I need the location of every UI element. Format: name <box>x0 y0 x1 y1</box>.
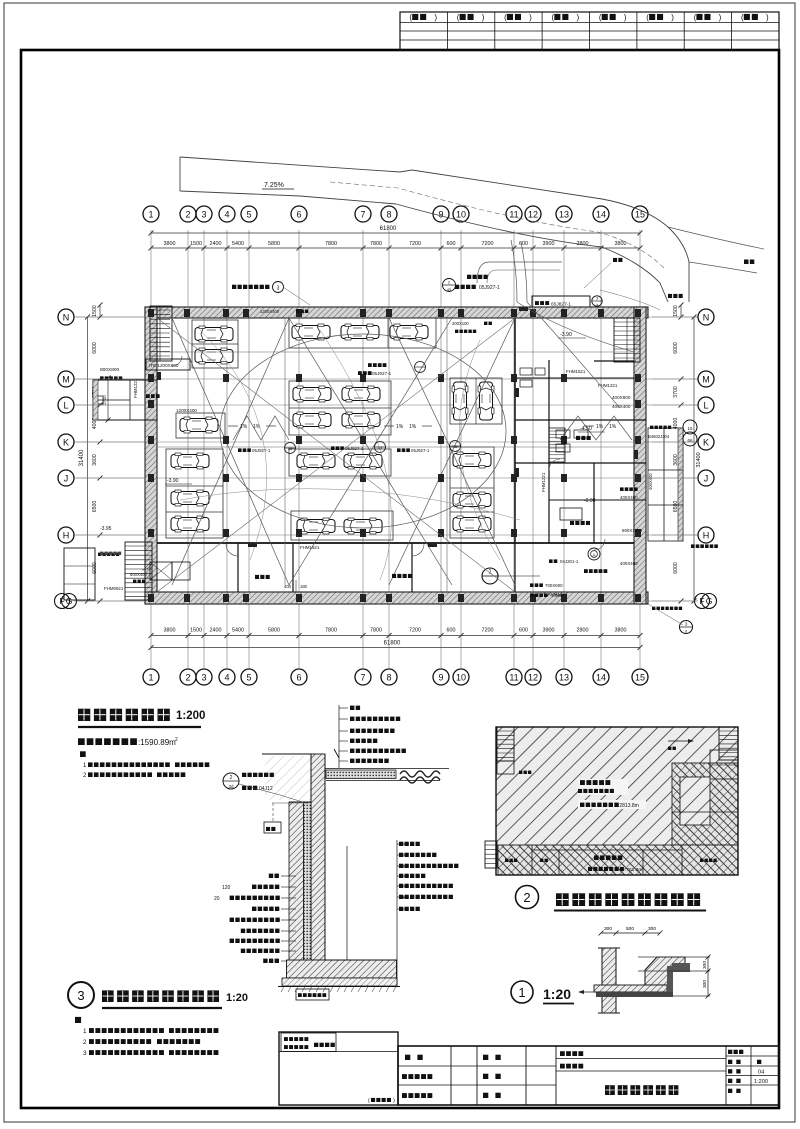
svg-text:6: 6 <box>296 210 301 220</box>
svg-text:2400: 2400 <box>210 628 222 634</box>
svg-text:6500: 6500 <box>92 501 98 513</box>
fire diagram right zone divider <box>672 811 738 813</box>
svg-text:7200: 7200 <box>482 241 494 247</box>
bottom band divider 1 <box>237 543 239 592</box>
svg-text:12: 12 <box>528 673 538 683</box>
svg-text:600: 600 <box>447 628 456 634</box>
svg-text:7: 7 <box>360 210 365 220</box>
detail roof squiggle <box>400 771 440 783</box>
svg-text:7800: 7800 <box>370 628 382 634</box>
mini date <box>728 1089 741 1093</box>
svg-text:31400: 31400 <box>79 449 85 466</box>
svg-text:1: 1 <box>148 210 153 220</box>
svg-text:-3.90: -3.90 <box>584 498 596 504</box>
svg-text:3: 3 <box>201 210 206 220</box>
room label fire water tank <box>392 574 412 578</box>
svg-text:3600: 3600 <box>92 454 98 466</box>
svg-text:05J927-1: 05J927-1 <box>411 448 430 453</box>
label duty room <box>146 394 160 398</box>
label right of wing a <box>650 426 671 429</box>
svg-text:400X400: 400X400 <box>620 495 638 500</box>
detail ground ledge line <box>262 753 313 755</box>
svg-text:2400: 2400 <box>210 241 222 247</box>
hydrant label 1 <box>238 443 296 454</box>
svg-text:H: H <box>703 531 710 541</box>
fire diagram outer rect <box>496 727 738 875</box>
door arc right room 1 <box>549 459 560 470</box>
svg-text::2813.8m: :2813.8m <box>618 803 639 809</box>
svg-text:L: L <box>63 401 68 411</box>
svg-text:14: 14 <box>596 210 606 220</box>
svg-text:FHM1221: FHM1221 <box>598 383 618 388</box>
cell project lead <box>402 1093 432 1098</box>
mini scale <box>728 1079 768 1085</box>
grid bubbles top (1-15) <box>143 206 648 222</box>
svg-text:10: 10 <box>456 673 466 683</box>
svg-text:3: 3 <box>277 286 280 292</box>
svg-text:7200: 7200 <box>409 628 421 634</box>
svg-text:400X400: 400X400 <box>648 473 653 490</box>
fire cell label a <box>505 859 517 862</box>
svg-text:3: 3 <box>201 673 206 683</box>
lane line vertical 2 <box>446 318 448 592</box>
equipment rect generator <box>560 508 582 520</box>
svg-text::1590.89m: :1590.89m <box>138 738 176 747</box>
fire diagram bottom strip crosshatch <box>498 845 738 875</box>
detail floor layer notes right <box>347 840 458 985</box>
svg-text:(: ( <box>368 1098 370 1104</box>
svg-text:1200X400: 1200X400 <box>176 408 197 413</box>
svg-text:): ) <box>671 13 674 22</box>
svg-text:14: 14 <box>596 673 606 683</box>
svg-text:2700: 2700 <box>102 395 107 405</box>
svg-text:1:200: 1:200 <box>176 710 205 722</box>
svg-text:-3.95: -3.95 <box>100 526 112 532</box>
svg-text:700X600: 700X600 <box>545 583 563 588</box>
bottom equipment band wall <box>157 542 634 544</box>
bottom band divider 3 <box>411 543 413 592</box>
leader bottom right <box>648 604 683 625</box>
registration text 2 <box>284 1043 335 1049</box>
detail ref circle A <box>588 548 600 560</box>
label basement drain right <box>691 544 718 548</box>
svg-text:9: 9 <box>438 210 443 220</box>
cell review <box>483 1074 501 1079</box>
svg-text:): ) <box>576 13 579 22</box>
svg-text:6000: 6000 <box>673 342 679 354</box>
svg-text:6000: 6000 <box>673 562 679 574</box>
svg-text:05J927-1: 05J927-1 <box>345 446 364 451</box>
ramp slope label 7.25% <box>262 182 294 189</box>
svg-text:500: 500 <box>626 926 634 932</box>
right rooms wall vertical x594 <box>593 463 595 543</box>
svg-text:5800: 5800 <box>268 628 280 634</box>
elev -4.50 <box>578 426 605 432</box>
label access hatch <box>530 583 563 588</box>
svg-text:FHM0921: FHM0921 <box>104 586 124 591</box>
long diagonal cross A <box>157 318 515 592</box>
svg-text:1:200: 1:200 <box>754 1079 768 1085</box>
title block grid <box>398 1046 726 1105</box>
svg-text:7200: 7200 <box>482 628 494 634</box>
svg-text:800X1500: 800X1500 <box>622 528 643 533</box>
label: garage roof drain (top-left) <box>232 282 310 306</box>
d1 wall cap lines <box>598 948 620 1013</box>
ramp lane rounded corner <box>477 262 562 283</box>
detail soil hatch above ledge <box>265 756 311 800</box>
entry arc right 1 <box>517 302 634 352</box>
subtitle: floor area <box>78 737 178 747</box>
label: tech mezzanine <box>443 275 501 292</box>
fire diagram cells below right stair <box>710 750 738 779</box>
label: stair hall <box>668 294 683 298</box>
svg-text:1%: 1% <box>409 424 417 430</box>
fire label small left <box>519 771 531 774</box>
cell discipline lead <box>402 1074 432 1079</box>
svg-text:05J927-1: 05J927-1 <box>372 371 392 376</box>
svg-text:6000: 6000 <box>92 342 98 354</box>
door arc right room 2 <box>594 539 605 550</box>
svg-text:120: 120 <box>222 885 231 891</box>
svg-text:d: d <box>685 629 687 634</box>
mini design no <box>728 1050 743 1054</box>
title: fire compartment diagram <box>516 886 707 911</box>
fire diagram stair block top-right <box>719 727 738 760</box>
svg-text:): ) <box>719 13 722 22</box>
detail soil ticks <box>281 987 396 993</box>
room label transformer <box>576 436 591 440</box>
svg-text:-3.90: -3.90 <box>167 478 179 484</box>
svg-text:2: 2 <box>523 890 530 905</box>
row bubbles right (N-G) <box>695 309 717 609</box>
sheet note 1 <box>83 1028 218 1035</box>
svg-text:5400: 5400 <box>232 628 244 634</box>
detail bedding bottom line <box>278 986 400 988</box>
svg-text:05J927-1: 05J927-1 <box>479 285 500 291</box>
overall dimension line bottom <box>149 641 643 651</box>
project section lines <box>556 1059 726 1072</box>
label right of wing b <box>648 434 670 439</box>
svg-text:2: 2 <box>230 775 233 781</box>
slope label 1% mid <box>384 424 432 430</box>
d1 wall hatch <box>602 948 616 1013</box>
svg-text:300: 300 <box>702 980 708 988</box>
svg-text:7: 7 <box>360 673 365 683</box>
svg-text:45: 45 <box>447 287 452 292</box>
svg-text:2: 2 <box>175 737 178 743</box>
lane diagonal X left <box>172 318 289 585</box>
parking bay outlines <box>166 318 502 540</box>
sheet note 3 <box>83 1050 218 1057</box>
lane line horizontal lower <box>157 446 634 448</box>
sheet note header <box>75 1017 81 1023</box>
stair top-right <box>614 318 640 362</box>
outer wall bottom band <box>145 592 648 604</box>
d1 left arrow <box>578 990 599 994</box>
d1 leader line top <box>638 956 710 958</box>
door leaf marks <box>157 307 638 547</box>
detail ref double circle right <box>683 420 697 446</box>
detail floor slab top line <box>325 959 397 961</box>
svg-text:4: 4 <box>224 673 229 683</box>
svg-text:(: ( <box>504 13 507 22</box>
svg-text:2: 2 <box>185 673 190 683</box>
ramp boundary upper line <box>180 157 689 302</box>
detail wall layer notes left <box>230 874 296 963</box>
structural grid horizontal lines <box>74 317 698 601</box>
svg-text:(: ( <box>741 13 744 22</box>
room label generator <box>570 521 590 525</box>
overall dimension line right <box>692 315 697 604</box>
svg-text:H: H <box>63 531 70 541</box>
svg-text:J: J <box>64 474 69 484</box>
door arc band 1 <box>226 544 238 556</box>
svg-text:400X400: 400X400 <box>612 404 631 409</box>
d1 membrane dark band <box>596 992 673 997</box>
top corridor label a <box>452 321 492 326</box>
lane diagonal X right <box>389 318 515 585</box>
right rooms wall vertical x549 <box>548 360 550 543</box>
right rooms wall horizontal y500 <box>549 499 646 501</box>
svg-text:31400: 31400 <box>696 452 702 467</box>
door arc band 2 <box>412 544 424 556</box>
ramp lane drop line 2 <box>521 242 527 302</box>
water intake well bottom-left <box>64 548 119 600</box>
svg-text:4000: 4000 <box>673 418 679 430</box>
segment dimension line right <box>673 303 684 604</box>
note header <box>80 751 86 757</box>
drain curve 2 <box>320 330 391 580</box>
small stair core mid-right <box>549 428 565 462</box>
svg-text:400: 400 <box>284 584 292 589</box>
slope label 1% right <box>584 424 617 430</box>
detail roof slab hatch band <box>326 770 396 779</box>
svg-text:8: 8 <box>386 673 391 683</box>
svg-text:A: A <box>592 553 595 558</box>
svg-text:300: 300 <box>648 926 656 932</box>
svg-text:3800: 3800 <box>615 241 627 247</box>
svg-text:): ) <box>434 13 437 22</box>
svg-text:-1.500: -1.500 <box>550 593 563 598</box>
svg-text:-3.90: -3.90 <box>560 332 572 338</box>
svg-text:1:20: 1:20 <box>543 986 571 1002</box>
d1 slab hatch <box>594 985 667 992</box>
svg-text:600: 600 <box>447 241 456 247</box>
cell check <box>483 1055 501 1060</box>
left protrusion rooms <box>93 380 157 420</box>
svg-text:FHM1221: FHM1221 <box>133 378 138 398</box>
svg-text:2: 2 <box>83 1039 87 1046</box>
title: basement waterproofing detail <box>68 982 248 1008</box>
fire zone 2 name <box>588 855 642 873</box>
label ITE box <box>146 359 190 370</box>
svg-text:(: ( <box>457 13 460 22</box>
door arc bottom-left <box>142 560 152 570</box>
segment dimension line left <box>92 303 103 604</box>
seal note <box>368 1098 395 1104</box>
membrane leader <box>239 784 306 803</box>
detail wall main hatch <box>311 754 325 960</box>
svg-text:4: 4 <box>224 210 229 220</box>
right rooms wall vertical x515 <box>514 318 516 543</box>
right rooms wall horizontal y463 <box>515 462 646 464</box>
felt layer label <box>296 989 329 1000</box>
svg-text:7.25%: 7.25% <box>264 182 284 189</box>
stair bottom-left outside <box>125 542 152 600</box>
label entry hall inner <box>584 258 622 288</box>
ramp boundary lower line <box>180 191 668 302</box>
svg-text:6: 6 <box>296 673 301 683</box>
top corridor label b <box>455 330 476 333</box>
top label 200000X400 <box>260 309 308 314</box>
svg-text:45: 45 <box>288 447 292 451</box>
label 800X400 duct <box>130 572 147 583</box>
membrane note text <box>242 773 274 792</box>
label: entry hall <box>744 260 754 265</box>
svg-text:M: M <box>702 375 710 385</box>
svg-text:(: ( <box>551 13 554 22</box>
dim 400 180 <box>284 580 308 592</box>
svg-text:2: 2 <box>185 210 190 220</box>
svg-text:K: K <box>703 438 709 448</box>
detail roof slab lines <box>321 769 449 781</box>
hydrant label 3 <box>397 441 461 454</box>
svg-text:1500: 1500 <box>190 241 202 247</box>
bottom band divider 4 <box>514 543 516 592</box>
room label pump house <box>255 575 270 579</box>
fire diagram right zone crosshatch <box>672 763 738 845</box>
fire diagram right zone inner room <box>680 777 710 825</box>
svg-text:N: N <box>63 313 70 323</box>
svg-text:3d: 3d <box>229 784 234 789</box>
svg-text:G: G <box>66 596 73 606</box>
turning circle ellipse <box>220 334 506 528</box>
slope zigzag right <box>560 416 632 440</box>
svg-text:FHM1521: FHM1521 <box>566 369 586 374</box>
right rooms wall horizontal y420 <box>515 419 646 421</box>
svg-text:1: 1 <box>518 985 525 1000</box>
structural grid vertical lines <box>151 230 640 668</box>
door arc top left room <box>172 356 182 366</box>
cell approve <box>483 1093 501 1098</box>
svg-text:800X400: 800X400 <box>130 572 147 577</box>
svg-text:3900: 3900 <box>543 628 555 634</box>
svg-text:3800: 3800 <box>164 241 176 247</box>
slope zigzag left <box>233 416 289 440</box>
svg-text:5400: 5400 <box>232 241 244 247</box>
svg-text:400X400: 400X400 <box>620 561 638 566</box>
svg-text:M: M <box>62 375 70 385</box>
svg-text:F: F <box>699 596 704 606</box>
d1 flange dark <box>672 963 690 972</box>
label box: reserved opening 65J827-1 <box>532 296 602 309</box>
svg-text:K: K <box>63 438 69 448</box>
label fan unit <box>150 562 190 580</box>
svg-text:200X100: 200X100 <box>452 321 469 326</box>
svg-text:40: 40 <box>399 864 405 869</box>
svg-text:800X800: 800X800 <box>100 367 120 373</box>
detail wall profile step <box>289 754 311 802</box>
cell design <box>405 1055 423 1060</box>
svg-text:7800: 7800 <box>325 241 337 247</box>
label cooling tower base <box>100 376 122 380</box>
outer wall left band <box>145 307 157 604</box>
d1 step right dark band <box>667 966 673 992</box>
label tank bottom elev <box>530 593 563 598</box>
elev -3.90 top-right <box>558 332 586 338</box>
svg-text:7800: 7800 <box>325 628 337 634</box>
fire cell label b <box>540 859 548 862</box>
svg-text:1: 1 <box>83 1028 87 1035</box>
svg-text:12: 12 <box>528 210 538 220</box>
fire diagram stair block left <box>485 841 497 868</box>
ramp curve lower to entry <box>689 262 757 273</box>
row bubbles left (N-G) <box>55 309 77 609</box>
svg-text:5800: 5800 <box>268 241 280 247</box>
long diagonal cross B <box>157 318 515 592</box>
fire cell label c <box>700 859 717 862</box>
svg-text:13: 13 <box>559 210 569 220</box>
svg-text:3700: 3700 <box>673 386 679 398</box>
svg-text:N: N <box>703 313 710 323</box>
svg-text:400X800: 400X800 <box>612 395 631 400</box>
svg-text:9: 9 <box>438 673 443 683</box>
svg-text:61800: 61800 <box>384 641 401 647</box>
right wing outer hatch <box>678 428 683 541</box>
svg-text:): ) <box>529 13 532 22</box>
label smoke shaft <box>620 487 638 500</box>
detail ref circle 3 bottom right <box>680 621 693 634</box>
structural columns <box>148 309 641 602</box>
svg-text:300: 300 <box>604 926 612 932</box>
svg-text:1500: 1500 <box>673 305 679 317</box>
registration text 1 <box>284 1037 308 1041</box>
outer wall top band <box>145 307 648 318</box>
row bubble leaders <box>76 317 697 601</box>
title: detail 1 <box>511 981 574 1004</box>
ramp lane drop line 1 <box>511 240 517 302</box>
label ref 04J201-1 <box>549 559 579 564</box>
right wing inner lines <box>648 428 683 541</box>
detail floor slab hatch <box>287 960 397 978</box>
svg-text:-4.50: -4.50 <box>580 426 592 432</box>
svg-text:): ) <box>624 13 627 22</box>
fire zone 1 name <box>578 779 646 809</box>
label basement drain bottom <box>652 607 682 610</box>
d1 leader line bottom <box>673 995 710 997</box>
ramp inner dashed line <box>330 182 664 268</box>
entry arc right 2 <box>527 302 620 408</box>
lane line vertical 1 <box>284 318 286 585</box>
svg-text:8: 8 <box>386 210 391 220</box>
svg-text:100: 100 <box>399 895 407 900</box>
svg-text:B4602J304: B4602J304 <box>648 434 670 439</box>
svg-text:(: ( <box>646 13 649 22</box>
detail wall inner face <box>324 754 326 960</box>
svg-text:2800: 2800 <box>577 628 589 634</box>
svg-text:3: 3 <box>83 1050 87 1057</box>
note line 1 <box>83 762 209 769</box>
svg-text:(: ( <box>599 13 602 22</box>
svg-text:FHM1521: FHM1521 <box>300 545 320 550</box>
svg-text:1%: 1% <box>596 424 604 430</box>
svg-text:1%: 1% <box>609 424 617 430</box>
svg-text:180: 180 <box>300 584 308 589</box>
mini sheet no <box>728 1069 764 1075</box>
equipment rects in transformer room <box>520 368 588 452</box>
svg-text:3900: 3900 <box>543 241 555 247</box>
right rooms wall horizontal y360 <box>515 361 634 378</box>
